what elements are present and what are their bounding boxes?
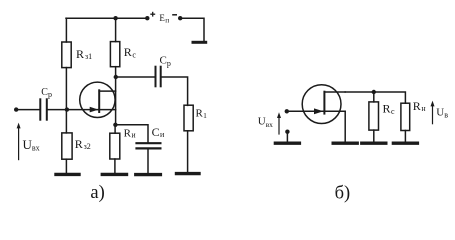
wire source to Ci xyxy=(115,125,148,142)
transistor VT (a) xyxy=(80,82,116,117)
ground under source (b) xyxy=(333,141,357,144)
wire source to ground (b) xyxy=(344,111,346,141)
transistor VT (b) xyxy=(302,85,345,124)
wire drain rail (b) xyxy=(345,92,405,103)
wire input to coupling cap xyxy=(16,109,39,111)
svg-text:а): а) xyxy=(90,183,104,203)
wire between Rz1 and gate node xyxy=(65,68,67,133)
label minus xyxy=(172,14,177,16)
capacitor Cp output xyxy=(156,67,161,87)
wire to output cap xyxy=(116,76,155,78)
node input terminal (a) xyxy=(14,107,18,111)
ground under Ci xyxy=(136,173,161,176)
label plus xyxy=(150,12,155,17)
ground under Rz2 xyxy=(56,173,79,176)
node Rc junction (b) xyxy=(372,90,376,94)
wire gate (b) xyxy=(287,110,324,112)
node gate junction xyxy=(65,107,69,111)
node source junction (a) xyxy=(113,123,117,127)
wire Rz2 to ground xyxy=(65,159,67,173)
resistor Rz1 xyxy=(62,42,71,68)
ground under Rc (b) xyxy=(362,141,386,144)
resistor Rz2 xyxy=(62,133,72,159)
ground under Rn (b) xyxy=(393,141,417,144)
wire drain branch xyxy=(115,67,117,125)
svg-text:б): б) xyxy=(335,183,351,203)
node drain output junction xyxy=(114,75,118,79)
node top rail Rc junction xyxy=(113,16,117,20)
wire Rc top (b) xyxy=(373,92,375,102)
arrow Uvx (b) xyxy=(277,112,281,134)
node input terminal (b) xyxy=(285,109,289,113)
node minus terminal xyxy=(178,16,182,20)
wire Ri to ground xyxy=(114,159,116,173)
wire output cap to R1 xyxy=(162,77,188,105)
wire R1 to ground xyxy=(187,131,189,172)
wire from minus terminal to corner xyxy=(180,18,204,41)
node lower input terminal (b) xyxy=(285,130,289,134)
wire Rc to ground (b) xyxy=(373,130,375,141)
arrow Uv (b) xyxy=(431,101,435,124)
ground under input (b) xyxy=(275,141,299,144)
wire top rail left (a) xyxy=(66,17,147,19)
resistor Rc (a) xyxy=(110,42,119,67)
node plus terminal xyxy=(145,16,149,20)
wire Ci to ground xyxy=(147,150,149,174)
wire left branch top xyxy=(65,18,67,42)
resistor R1 xyxy=(184,105,193,131)
resistor Ri xyxy=(110,133,120,159)
capacitor Cp input xyxy=(40,99,47,119)
capacitor Ci xyxy=(137,143,161,148)
arrow Uvx (a) xyxy=(17,123,21,160)
resistor Rc (b) xyxy=(369,102,379,130)
ground under R1 xyxy=(177,172,200,175)
wire lower terminal to ground (b) xyxy=(286,132,288,142)
wire Rn to ground (b) xyxy=(404,131,406,142)
wire gate xyxy=(48,109,99,111)
ground under Ri xyxy=(102,173,126,176)
wire source to Ri xyxy=(114,125,116,133)
ground bar at supply xyxy=(193,41,206,44)
resistor Rn (b) xyxy=(401,103,410,130)
svg-text:Еп: Еп xyxy=(159,13,169,24)
wire top rail to Rc xyxy=(115,18,117,41)
